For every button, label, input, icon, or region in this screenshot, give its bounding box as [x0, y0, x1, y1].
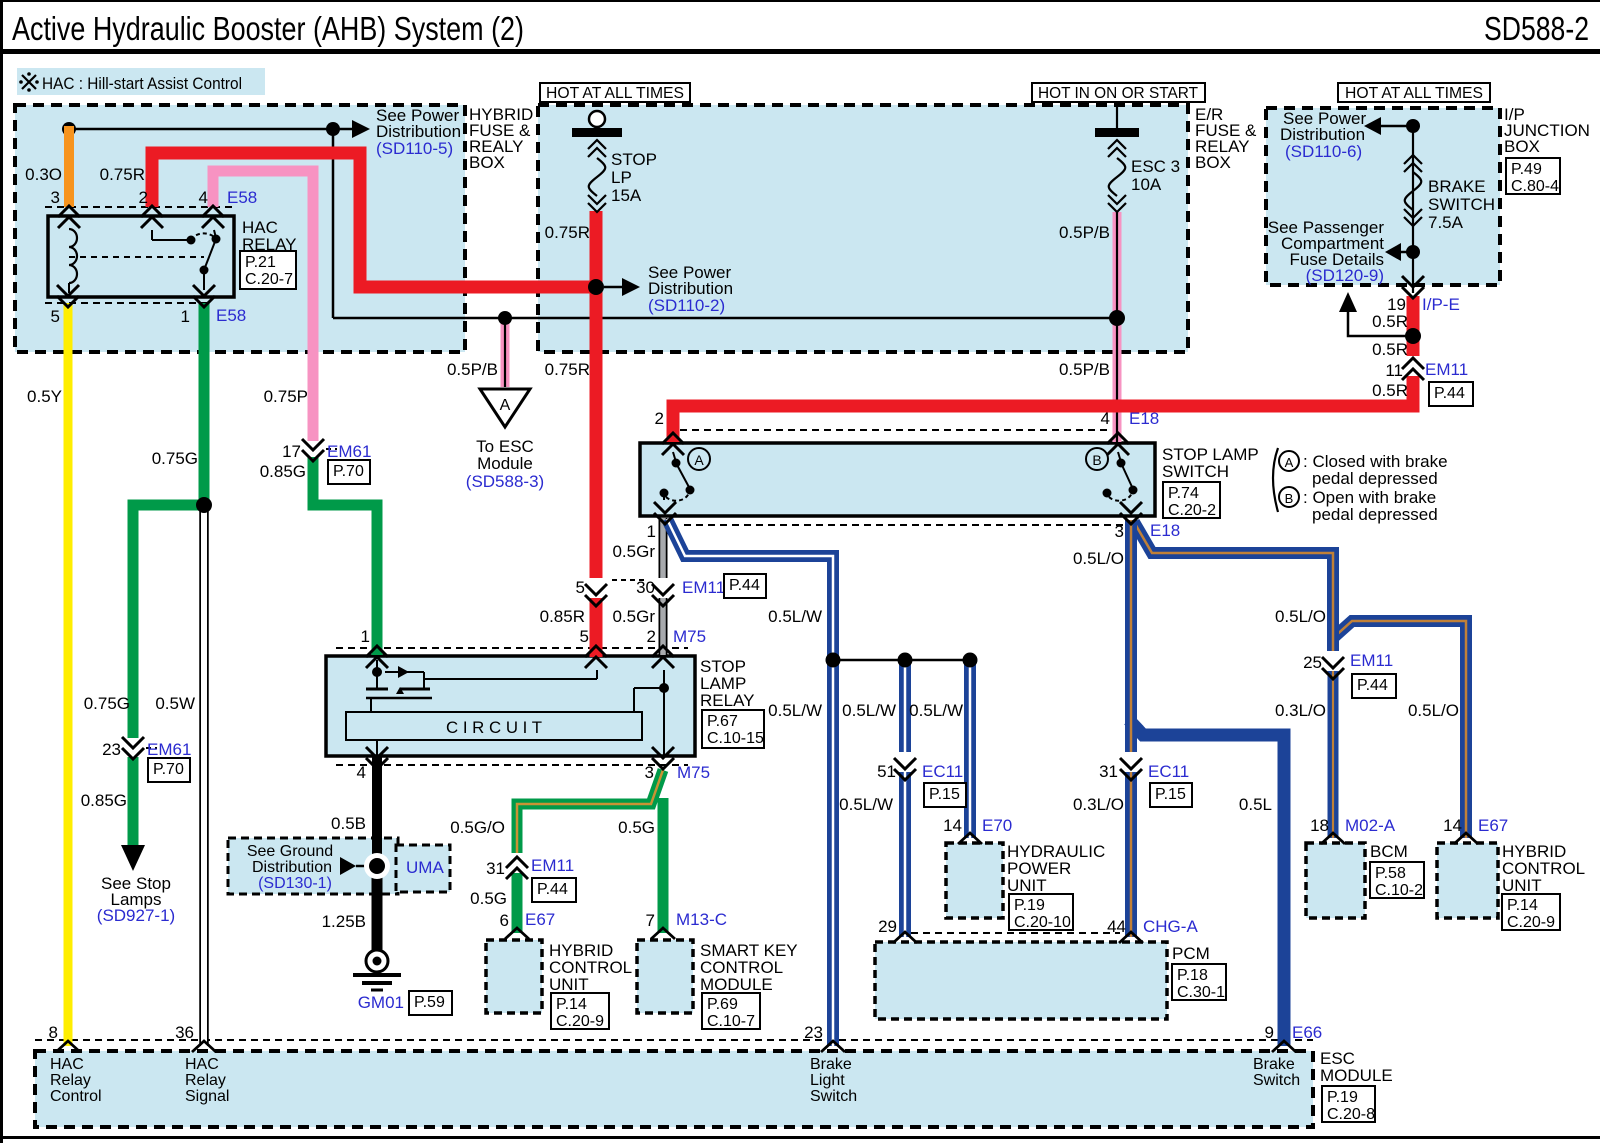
label 0.5P/B right top: [1059, 223, 1110, 242]
svg-text:0.75R: 0.75R: [545, 223, 590, 242]
svg-text:0.5W: 0.5W: [155, 694, 195, 713]
svg-text:0.5P/B: 0.5P/B: [447, 360, 498, 379]
HAC relay switch: [152, 230, 221, 290]
see ground distribution box: [228, 838, 398, 894]
svg-text:0.3L/O: 0.3L/O: [1073, 795, 1124, 814]
fuse STOP LP 15A: [572, 111, 622, 212]
svg-text:0.5L/W: 0.5L/W: [768, 701, 822, 720]
ESC pin 36 number: [175, 1023, 194, 1042]
label 0.85G top: [260, 462, 306, 481]
svg-text:(SD110-2): (SD110-2): [648, 296, 725, 315]
wire 0.5L/O to hybrid control unit: [1333, 621, 1466, 838]
junction dot A2: [326, 122, 340, 136]
svg-text:0.75G: 0.75G: [84, 694, 130, 713]
svg-text:M75: M75: [673, 627, 706, 646]
svg-text:HOT AT ALL TIMES: HOT AT ALL TIMES: [546, 85, 684, 102]
connector EM11-31: [486, 855, 576, 902]
I/P junction box (dashed): [1266, 108, 1500, 285]
label 0.5Gr low: [612, 607, 655, 626]
stop lamp switch box: [640, 443, 1155, 516]
svg-text:P.67: P.67: [707, 713, 738, 730]
stop lamp relay pin 5 chevron: [585, 646, 607, 668]
svg-text:14: 14: [1443, 816, 1462, 835]
junction dot P/B-right: [1109, 310, 1125, 326]
page top border: [0, 0, 1600, 2]
label 0.5L/W a: [768, 607, 822, 626]
svg-text:P.15: P.15: [929, 786, 960, 803]
fuse ESC 3 10A: [1095, 101, 1139, 212]
hybrid control unit right ref: [1502, 894, 1560, 931]
svg-text:8: 8: [49, 1023, 58, 1042]
svg-text:23: 23: [102, 740, 121, 759]
hybrid control unit label: [549, 941, 632, 994]
svg-text:MODULE: MODULE: [700, 975, 773, 994]
svg-text:6: 6: [500, 911, 509, 930]
svg-text:0.3O: 0.3O: [25, 165, 62, 184]
hydraulic power unit box (E70): [946, 843, 1003, 918]
junction dot A1: [62, 122, 76, 136]
junction dot green-white: [196, 497, 212, 513]
svg-text:P.19: P.19: [1327, 1089, 1358, 1106]
label 0.5G/O: [450, 818, 505, 837]
svg-text:SWITCH: SWITCH: [1428, 195, 1495, 214]
see power distribution SD110-5 arrow: [333, 120, 370, 138]
label 0.5G b: [470, 889, 507, 908]
BCM label: [1370, 842, 1408, 861]
fuse ESC 3 label: [1131, 157, 1180, 194]
svg-text:0.75R: 0.75R: [545, 360, 590, 379]
label 0.5L/W c: [842, 701, 896, 720]
svg-text:M75: M75: [677, 763, 710, 782]
svg-text:E58: E58: [227, 188, 257, 207]
svg-text:0.5L/W: 0.5L/W: [768, 607, 822, 626]
svg-text:EM61: EM61: [147, 740, 191, 759]
svg-text:4: 4: [1101, 409, 1110, 428]
svg-text:P.19: P.19: [1014, 897, 1045, 914]
junction dot IP2: [1406, 245, 1420, 259]
ESC module label: [1320, 1049, 1393, 1085]
svg-text:2: 2: [655, 409, 664, 428]
svg-text:HOT IN ON OR START: HOT IN ON OR START: [1038, 85, 1198, 102]
svg-text:0.5B: 0.5B: [331, 814, 366, 833]
connector EC11-51: [877, 752, 966, 807]
I/P junction box label: [1504, 105, 1590, 156]
stop lamp switch ref: [1163, 482, 1220, 519]
ground GM01 label: [358, 991, 452, 1015]
svg-text:SD588-2: SD588-2: [1484, 10, 1589, 47]
svg-text:E18: E18: [1150, 521, 1180, 540]
to ESC module text: [466, 437, 544, 491]
svg-text:0.5L/O: 0.5L/O: [1408, 701, 1459, 720]
svg-text:EM11: EM11: [1425, 360, 1468, 379]
svg-text:P.14: P.14: [1507, 897, 1538, 914]
svg-text:RELAY: RELAY: [700, 691, 755, 710]
label 0.75G low: [84, 694, 130, 713]
svg-text:E58: E58: [216, 306, 246, 325]
smart key label: [700, 941, 798, 994]
svg-text:C I R C U I T: C I R C U I T: [446, 718, 542, 737]
hybrid fuse box label: [469, 105, 533, 172]
svg-text:31: 31: [1099, 762, 1118, 781]
svg-text:A: A: [1285, 455, 1294, 470]
hybrid control unit box (E67): [486, 940, 542, 1013]
stop lamp switch pin 1 chevron: [654, 502, 676, 524]
label 0.75R top: [100, 165, 145, 184]
see power distribution SD110-2 arrow: [604, 278, 640, 296]
switch pin 1 number: [647, 522, 656, 541]
svg-text:1: 1: [361, 627, 370, 646]
wire 0.5L/O - 0.3L/O main: [1125, 520, 1137, 937]
wire 0.5L/W to PCM: [899, 660, 911, 937]
stop lamp relay box: [326, 656, 695, 756]
BCM pin 18 number: [1310, 816, 1329, 835]
wire 0.3L/O to BCM: [1328, 662, 1339, 838]
ESC module box: [35, 1051, 1313, 1127]
E70 pin 14 number: [943, 816, 962, 835]
smart key ref: [702, 993, 760, 1030]
svg-text:ESC 3: ESC 3: [1131, 157, 1180, 176]
connector E67 label: [525, 910, 555, 929]
relay pin 2 number: [647, 627, 656, 646]
svg-text:0.85G: 0.85G: [81, 791, 127, 810]
svg-text:EM61: EM61: [327, 442, 371, 461]
pin 2 number: [139, 188, 148, 207]
svg-text:0.5L: 0.5L: [1239, 795, 1272, 814]
relay pin 4 number: [357, 763, 366, 782]
label 0.5L: [1239, 795, 1272, 814]
wire 0.5G/O to EM11: [517, 770, 663, 853]
stop lamp relay ref: [702, 710, 764, 748]
svg-text:BCM: BCM: [1370, 842, 1408, 861]
HAC relay pin 5 chevron: [57, 285, 79, 307]
wire 0.3O orange: [64, 126, 74, 207]
svg-text:HAC: HAC: [50, 1056, 84, 1073]
svg-text:3: 3: [1115, 522, 1124, 541]
svg-text:B: B: [1285, 491, 1294, 506]
svg-text:MODULE: MODULE: [1320, 1066, 1393, 1085]
svg-text:0.5L/W: 0.5L/W: [909, 701, 963, 720]
svg-text:UNIT: UNIT: [549, 975, 589, 994]
svg-text:P.44: P.44: [1357, 677, 1388, 694]
svg-text:30: 30: [636, 578, 655, 597]
svg-text:0.5R: 0.5R: [1372, 340, 1408, 359]
junction dot P/B-left: [498, 311, 512, 325]
I/P exit pin 19 chevron: [1402, 276, 1424, 298]
svg-text:P.74: P.74: [1168, 485, 1199, 502]
label 0.75R low: [545, 360, 590, 379]
stop lamp relay connector line M75 bottom: [336, 764, 688, 766]
svg-text:4: 4: [357, 763, 366, 782]
see power distribution SD110-6 text: [1280, 109, 1366, 161]
svg-text:P.21: P.21: [245, 254, 276, 271]
svg-text:BOX: BOX: [1195, 153, 1231, 172]
wire 0.5L/W brake light switch: [667, 519, 833, 1046]
stop lamp relay pin 3 chevron: [652, 747, 674, 769]
svg-text:C.10-7: C.10-7: [707, 1013, 755, 1030]
PCM pin 44 number: [1107, 917, 1126, 936]
svg-text:10A: 10A: [1131, 175, 1162, 194]
HOT AT ALL TIMES label (left): [540, 83, 690, 102]
svg-text:pedal depressed: pedal depressed: [1312, 505, 1438, 524]
svg-text:I/P-E: I/P-E: [1422, 295, 1460, 314]
svg-text:Relay: Relay: [50, 1072, 91, 1089]
see passenger fuse details text: [1268, 218, 1385, 285]
stop lamp relay internal node: [634, 670, 669, 756]
stop lamp relay pin 1 chevron: [366, 646, 388, 668]
connector CHG-A label: [1143, 917, 1198, 936]
page bottom border: [0, 1136, 1600, 1139]
svg-text:UNIT: UNIT: [1007, 876, 1047, 895]
connector M02-A label: [1345, 816, 1396, 835]
pin 4 number: [199, 188, 208, 207]
label 0.5L/O b: [1275, 607, 1326, 626]
wire 0.5P/B right: [1113, 212, 1122, 442]
svg-text:HAC: HAC: [185, 1056, 219, 1073]
svg-text:LP: LP: [611, 168, 632, 187]
svg-text:(SD110-6): (SD110-6): [1285, 142, 1362, 161]
svg-text:0.5Gr: 0.5Gr: [612, 607, 655, 626]
stop lamp switch label: [1162, 445, 1259, 481]
stop lamp switch pin 4 chevron: [1107, 433, 1129, 455]
switch pin 3 number: [1115, 522, 1124, 541]
wire 0.85G from EM61: [313, 455, 377, 655]
stop lamp relay circuit block: [346, 712, 642, 740]
svg-text:0.5R: 0.5R: [1372, 381, 1408, 400]
svg-text:0.5G: 0.5G: [470, 889, 507, 908]
svg-text:Switch: Switch: [1253, 1072, 1300, 1089]
svg-text:15A: 15A: [611, 186, 642, 205]
svg-text:P.59: P.59: [414, 994, 445, 1011]
switch pin 4 number: [1101, 409, 1110, 428]
svg-text:Light: Light: [810, 1072, 845, 1089]
svg-text:C.20-2: C.20-2: [1168, 502, 1216, 519]
wire 0.85R lower red: [590, 578, 603, 655]
svg-text:Module: Module: [477, 454, 533, 473]
ESC pin 9 number: [1265, 1023, 1274, 1042]
svg-text:P.18: P.18: [1177, 967, 1208, 984]
ESC pin 23 number: [804, 1023, 823, 1042]
svg-text:44: 44: [1107, 917, 1126, 936]
HAC note highlight: [17, 68, 265, 95]
svg-text:0.5P/B: 0.5P/B: [1059, 223, 1110, 242]
svg-text:0.5G: 0.5G: [618, 818, 655, 837]
HOT IN ON OR START label: [1032, 83, 1205, 102]
svg-text:0.5L/O: 0.5L/O: [1073, 549, 1124, 568]
circled letter B: [1086, 448, 1108, 470]
svg-text:0.5R: 0.5R: [1372, 312, 1408, 331]
junction dot IP1: [1406, 119, 1420, 133]
ground GM01 symbol: [353, 950, 401, 990]
svg-text:C.20-7: C.20-7: [245, 271, 293, 288]
svg-text:0.5P/B: 0.5P/B: [1059, 360, 1110, 379]
HAC relay ref: [240, 251, 296, 289]
HAC relay mechanical link: [69, 256, 204, 258]
wire 0.75G green: [133, 303, 210, 738]
legend A: [1279, 451, 1448, 488]
svg-text:3: 3: [51, 188, 60, 207]
svg-text:(SD588-3): (SD588-3): [466, 472, 544, 491]
fuse STOP LP label: [611, 150, 657, 205]
switch pin 2 number: [655, 409, 664, 428]
ESC pin 36 chevron: [192, 1041, 216, 1052]
label 0.5L/O a: [1073, 549, 1124, 568]
svg-text:(SD130-1): (SD130-1): [258, 875, 332, 892]
hydraulic power unit label: [1007, 842, 1105, 895]
see stop lamps arrow: [121, 845, 145, 871]
label 0.5Gr top: [612, 542, 655, 561]
svg-text:29: 29: [878, 917, 897, 936]
ESC module connector line: [35, 1039, 1313, 1041]
svg-text:UNIT: UNIT: [1502, 876, 1542, 895]
E/R fuse box label: [1195, 105, 1257, 172]
label 0.5Y: [27, 387, 62, 406]
svg-text:P.58: P.58: [1375, 865, 1406, 882]
svg-text:(SD927-1): (SD927-1): [97, 906, 175, 925]
stop lamp relay pin 2 chevron: [652, 646, 674, 668]
IP jumper arrow: [1339, 292, 1413, 336]
svg-text:9: 9: [1265, 1023, 1274, 1042]
svg-text:0.75R: 0.75R: [100, 165, 145, 184]
connector EM11-25: [1303, 651, 1396, 698]
stop lamp switch contact B: [1103, 452, 1138, 501]
label 0.5R a: [1372, 312, 1408, 331]
svg-text:3: 3: [645, 763, 654, 782]
E67 right pin 14 chevron: [1454, 833, 1478, 844]
svg-text:HAC : Hill-start Assist Contro: HAC : Hill-start Assist Control: [42, 74, 242, 93]
svg-text:Active Hydraulic Booster (AHB): Active Hydraulic Booster (AHB) System (2…: [12, 10, 524, 47]
hybrid control unit box (E67 right): [1437, 843, 1498, 918]
HOT AT ALL TIMES label (right): [1338, 83, 1490, 102]
BCM ref: [1370, 862, 1424, 899]
label 0.3L/O a: [1275, 701, 1326, 720]
svg-text:36: 36: [175, 1023, 194, 1042]
PCM pin 29 number: [878, 917, 897, 936]
svg-text:E67: E67: [525, 910, 555, 929]
label 0.3O: [25, 165, 62, 184]
E70 pin 14 chevron: [958, 833, 982, 844]
svg-text:EC11: EC11: [922, 762, 963, 781]
svg-text:0.3L/O: 0.3L/O: [1275, 701, 1326, 720]
pin 3 number: [51, 188, 60, 207]
svg-text:GM01: GM01: [358, 993, 404, 1012]
svg-text:0.5L/W: 0.5L/W: [842, 701, 896, 720]
label 0.5G a: [618, 818, 655, 837]
svg-text:Switch: Switch: [810, 1088, 857, 1105]
svg-text:0.75P: 0.75P: [264, 387, 308, 406]
svg-text:5: 5: [576, 578, 585, 597]
svg-text:23: 23: [804, 1023, 823, 1042]
I/P junction box ref: [1506, 158, 1560, 195]
svg-text:EM11: EM11: [682, 578, 725, 597]
PCM ref: [1172, 964, 1226, 1001]
wire 0.5Y yellow: [64, 303, 73, 1046]
PCM pin 29 chevron: [893, 932, 917, 943]
label 0.5P/B right low: [1059, 360, 1110, 379]
junction dot red: [588, 279, 604, 295]
svg-text:5: 5: [51, 307, 60, 326]
HAC relay pin 4 chevron: [202, 206, 224, 228]
svg-text:SWITCH: SWITCH: [1162, 462, 1229, 481]
svg-text:0.5Gr: 0.5Gr: [612, 542, 655, 561]
wire 0.75P pink: [213, 171, 313, 441]
svg-text:P.69: P.69: [707, 996, 738, 1013]
connector E70 label: [982, 816, 1012, 835]
see passenger fuse details arrow: [1385, 243, 1413, 261]
svg-text:0.75G: 0.75G: [152, 449, 198, 468]
relay pin 3 number: [645, 763, 654, 782]
svg-text:BOX: BOX: [1504, 137, 1540, 156]
svg-text:1: 1: [647, 522, 656, 541]
ESC pin 23 chevron: [821, 1041, 845, 1052]
wire 0.5G to hybrid control unit: [512, 856, 523, 933]
HAC note text: [42, 74, 242, 93]
relay pin 1 number: [361, 627, 370, 646]
hybrid fuse box (dashed): [15, 105, 465, 352]
connector E58 bottom label: [216, 306, 246, 325]
HAC relay pin 1 chevron: [193, 285, 215, 307]
wire 0.85G green to stop lamps: [128, 757, 139, 848]
svg-text:0.5L/W: 0.5L/W: [839, 795, 893, 814]
svg-text:P.44: P.44: [729, 577, 760, 594]
svg-text:(SD120-9): (SD120-9): [1306, 266, 1384, 285]
page left border: [0, 0, 3, 1143]
label 0.75R mid: [545, 223, 590, 242]
ESC module ref: [1322, 1086, 1375, 1123]
svg-text:P.15: P.15: [1155, 786, 1186, 803]
svg-text:Brake: Brake: [1253, 1056, 1295, 1073]
junction bus line: [833, 659, 970, 662]
see power distribution SD110-6 arrow: [1364, 117, 1413, 135]
svg-text:B: B: [1092, 452, 1101, 468]
legend brace: [1273, 448, 1278, 512]
E67 right pin 14 number: [1443, 816, 1462, 835]
svg-text:P.44: P.44: [1434, 385, 1465, 402]
UMA box: [396, 845, 450, 892]
svg-text:A: A: [500, 397, 511, 414]
stop lamp relay transistor: [366, 660, 597, 757]
connector EM61-17: [282, 439, 371, 484]
HAC relay coil: [69, 229, 77, 293]
I/P internal wire: [1412, 126, 1414, 252]
svg-text:2: 2: [647, 627, 656, 646]
svg-text:M13-C: M13-C: [676, 910, 727, 929]
stop lamp relay pin 4 chevron: [366, 747, 388, 769]
connector E66 label: [1292, 1023, 1322, 1042]
wire 0.5Gr gray: [659, 518, 668, 655]
HAC note reference mark: [19, 72, 39, 92]
svg-text:C.20-8: C.20-8: [1327, 1106, 1375, 1123]
page number SD588-2: [1484, 10, 1589, 47]
stop lamp switch pin 2 chevron: [662, 433, 684, 455]
connector M75 top label: [673, 627, 706, 646]
wire 0.5G to smart key module: [658, 798, 669, 933]
SKCM pin 7 number: [646, 911, 655, 930]
connector E58 top label: [227, 188, 257, 207]
svg-text:31: 31: [486, 859, 505, 878]
pin 19 number: [1387, 295, 1406, 314]
wire 0.75R red main vertical: [590, 211, 603, 657]
label 0.5R b: [1372, 340, 1408, 359]
svg-text:(SD110-5): (SD110-5): [376, 139, 453, 158]
svg-text:7.5A: 7.5A: [1428, 213, 1464, 232]
svg-text:1.25B: 1.25B: [322, 912, 366, 931]
ESC pin 8 chevron: [56, 1041, 80, 1052]
legend B: [1279, 487, 1438, 524]
svg-text:P.49: P.49: [1511, 161, 1542, 178]
label 0.5P/B left: [447, 360, 498, 379]
HAC relay connector line E58 bottom: [45, 302, 212, 304]
svg-text:M02-A: M02-A: [1345, 816, 1396, 835]
